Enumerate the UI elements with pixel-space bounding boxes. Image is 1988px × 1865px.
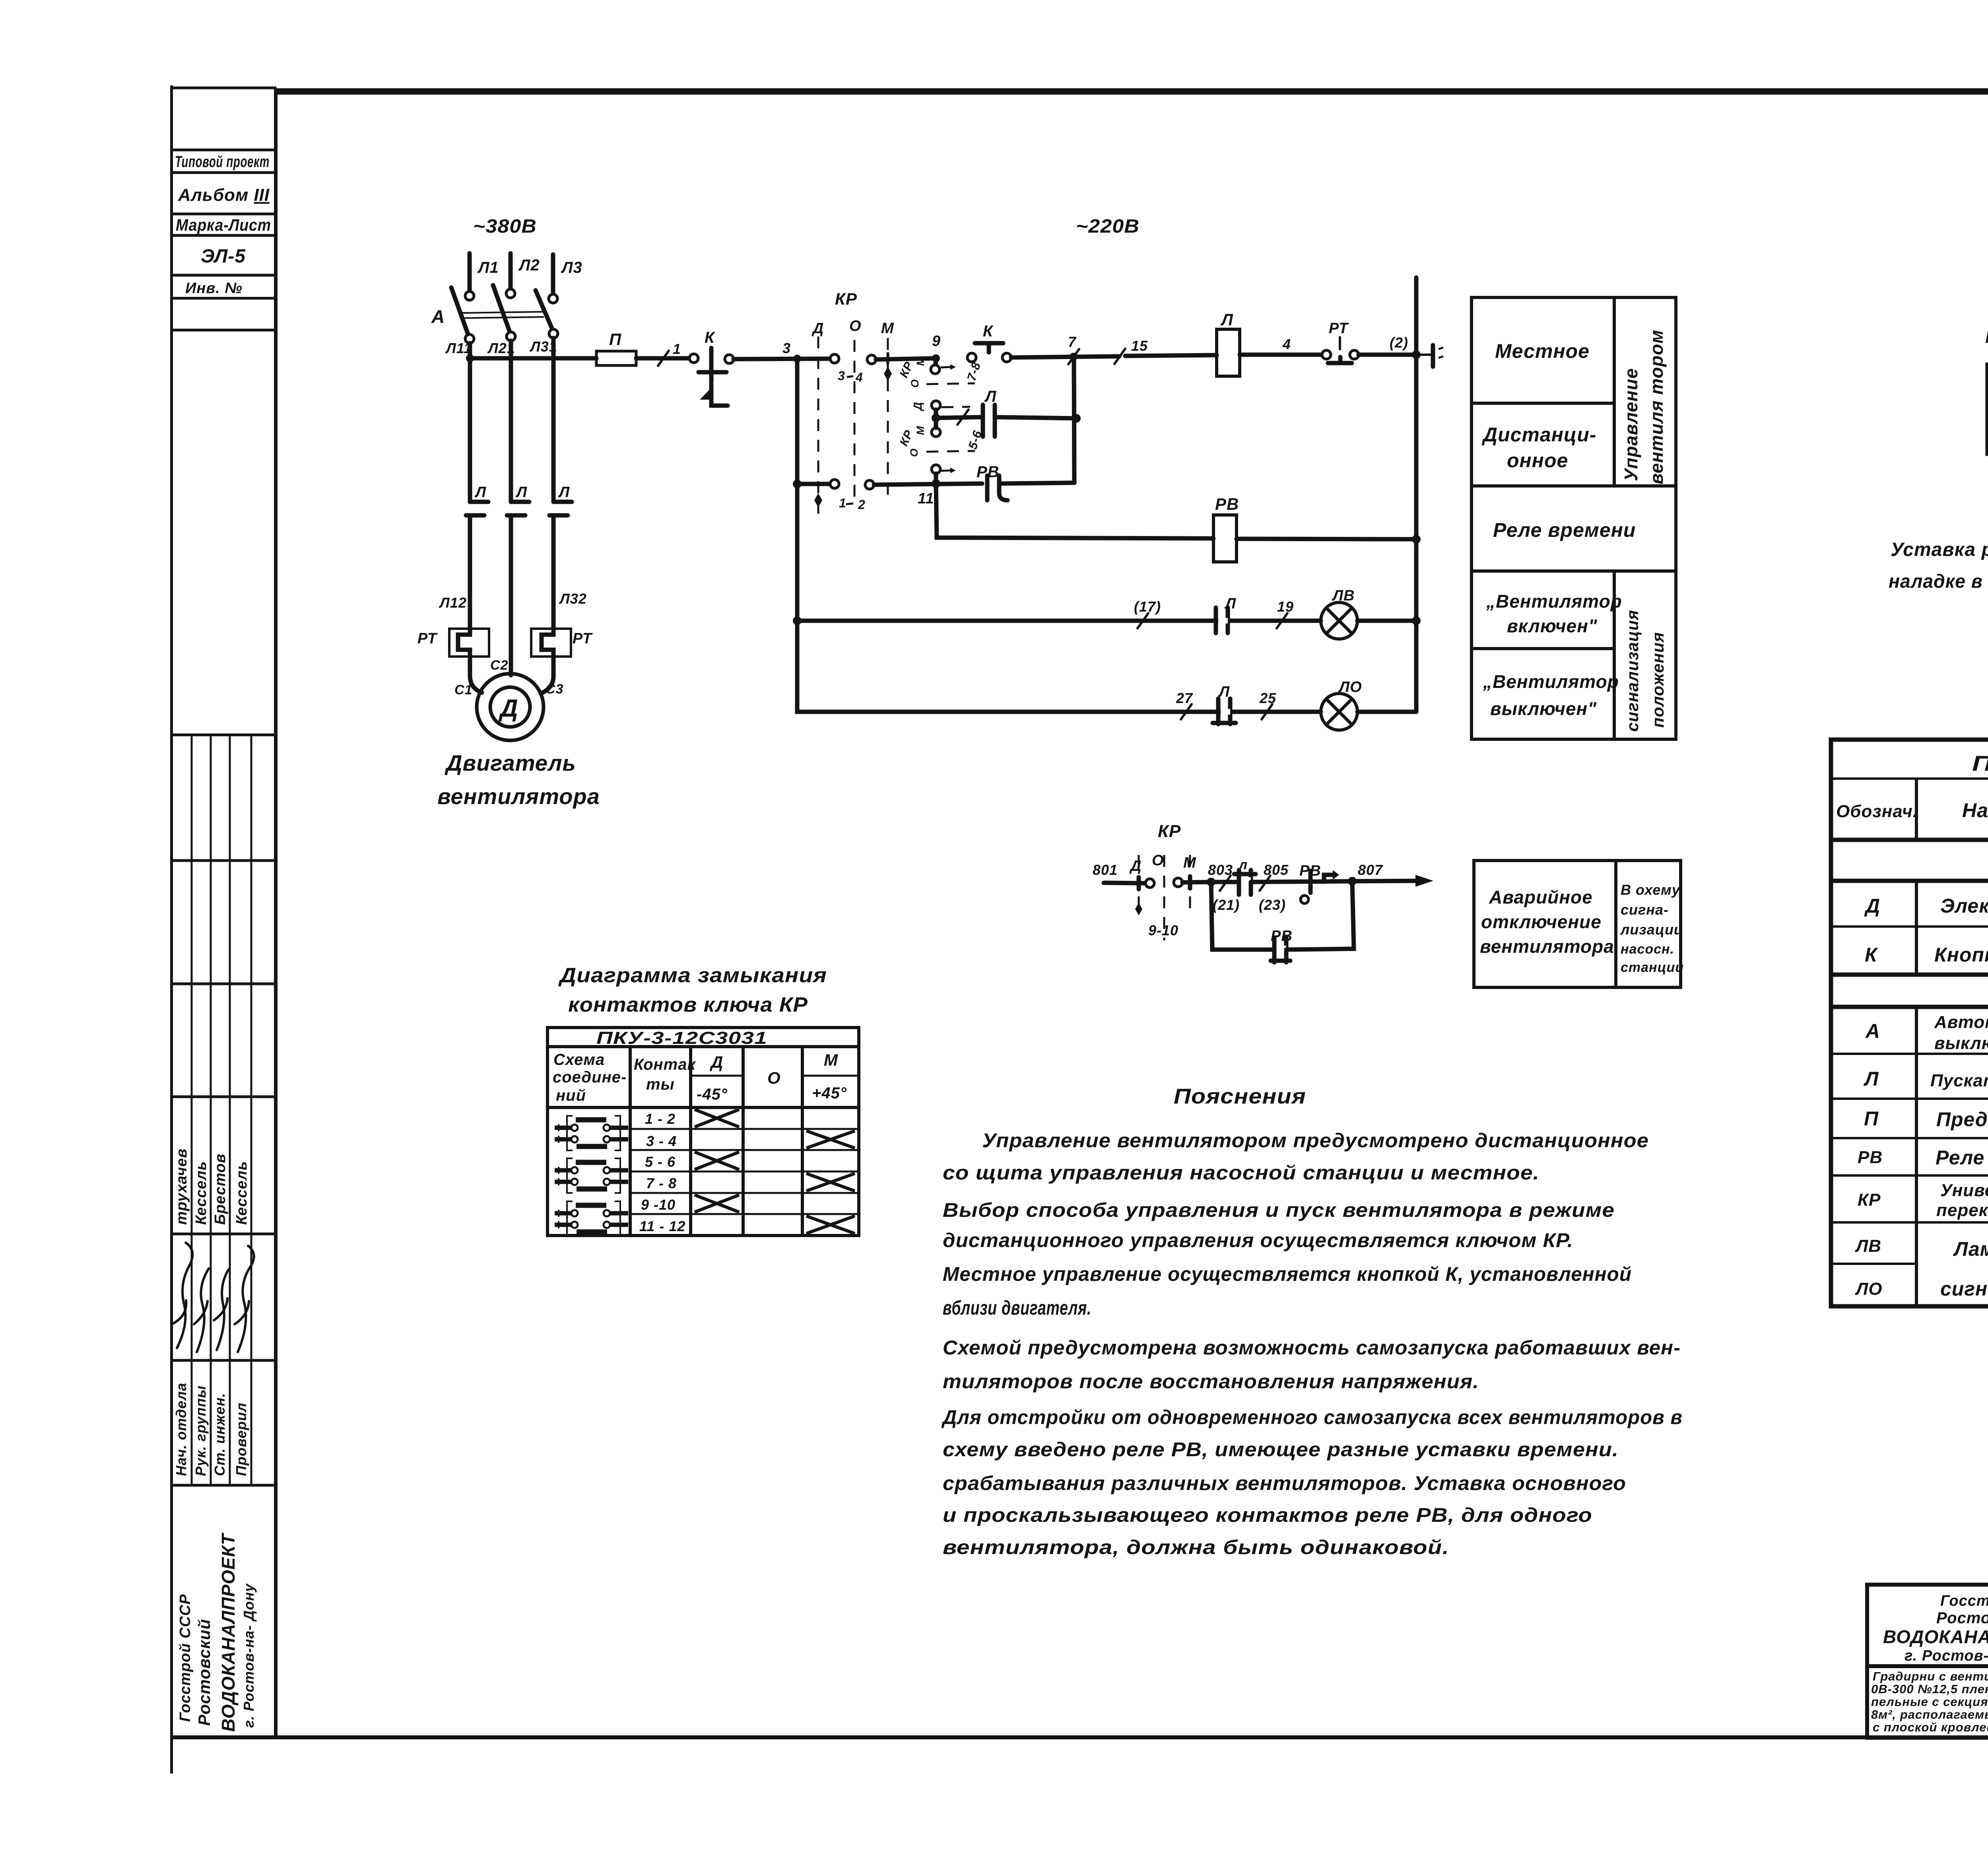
svg-text:К: К bbox=[705, 329, 715, 346]
svg-text:Уставка реле времени „1÷5-РВ": Уставка реле времени „1÷5-РВ" уточняется… bbox=[1891, 539, 1988, 560]
svg-text:П: П bbox=[1864, 1107, 1879, 1130]
svg-text:Дистанци-: Дистанци- bbox=[1481, 424, 1596, 446]
svg-text:Брестов: Брестов bbox=[212, 1154, 229, 1225]
svg-text:Пускатель магнитный: Пускатель магнитный bbox=[1930, 1071, 1988, 1090]
svg-text:3 - 4: 3 - 4 bbox=[646, 1133, 677, 1149]
svg-text:807: 807 bbox=[1358, 862, 1383, 878]
svg-text:(23): (23) bbox=[1259, 897, 1286, 913]
emergency KR contact 9-10 bbox=[1174, 876, 1211, 888]
svg-text:Местное: Местное bbox=[1495, 340, 1590, 362]
svg-text:сигна-: сигна- bbox=[1621, 901, 1669, 918]
svg-text:Контак: Контак bbox=[634, 1056, 696, 1073]
svg-text:Л12: Л12 bbox=[439, 594, 467, 611]
svg-text:пельные с секциями площадью: пельные с секциями площадью bbox=[1871, 1695, 1988, 1709]
svg-text:РТ: РТ bbox=[573, 630, 593, 647]
time settings table title bbox=[1985, 324, 1988, 348]
svg-text:Л: Л bbox=[558, 484, 570, 501]
svg-text:Электродвигатель: Электродвигатель bbox=[1940, 895, 1988, 917]
svg-text:Л3: Л3 bbox=[561, 259, 582, 276]
breaker A bbox=[431, 285, 553, 335]
thermal relay RT contact bbox=[1322, 320, 1359, 363]
svg-text:и проскальзывающего контакт: и проскальзывающего контактов реле РВ, д… bbox=[943, 1504, 1592, 1526]
wire top rail segment 5 bbox=[1125, 355, 1217, 356]
contact diagram header texts bbox=[553, 1028, 847, 1104]
label ~220V bbox=[1076, 216, 1140, 237]
lamp LV bbox=[1321, 587, 1421, 639]
svg-text:Госстрой СССР: Госстрой СССР bbox=[177, 1594, 194, 1722]
svg-text:Л: Л bbox=[984, 388, 997, 405]
strip names (rotated) bbox=[173, 1148, 250, 1225]
svg-text:А: А bbox=[431, 306, 445, 327]
svg-text:Автоматический: Автоматический bbox=[1934, 1012, 1988, 1032]
rail 1-2 bbox=[793, 480, 982, 512]
svg-text:положения: положения bbox=[1648, 632, 1667, 728]
svg-text:л: л bbox=[1238, 857, 1248, 872]
svg-text:11: 11 bbox=[918, 490, 934, 507]
svg-text:Кессель: Кессель bbox=[233, 1161, 250, 1225]
title block org cell bbox=[1871, 1593, 1988, 1734]
svg-text:М: М bbox=[914, 426, 926, 435]
node 807 bbox=[1348, 862, 1383, 886]
svg-text:включен": включен" bbox=[1507, 616, 1598, 636]
svg-text:с плоской кровлей.: с плоской кровлей. bbox=[1873, 1720, 1988, 1734]
wire top rail segment 4 bbox=[1011, 356, 1119, 357]
svg-text:контактов ключа КР: контактов ключа КР bbox=[568, 993, 808, 1016]
svg-text:3: 3 bbox=[782, 340, 791, 356]
svg-text:Ст. инжен.: Ст. инжен. bbox=[212, 1393, 228, 1476]
svg-text:вентиля тором: вентиля тором bbox=[1646, 330, 1667, 484]
svg-text:Выдержки времени реле „1÷5-РВ": Выдержки времени реле „1÷5-РВ" bbox=[1985, 324, 1988, 348]
svg-text:схему введено реле РВ, име: схему введено реле РВ, имеющее разные ус… bbox=[943, 1438, 1619, 1461]
thermal relay RT heater left bbox=[417, 629, 489, 657]
wire top rail segment 3 bbox=[734, 359, 835, 359]
svg-text:7-8: 7-8 bbox=[964, 360, 983, 383]
note text bbox=[1889, 539, 1988, 592]
svg-text:11 - 12: 11 - 12 bbox=[639, 1218, 685, 1234]
frame top border bbox=[172, 88, 1988, 95]
svg-text:О: О bbox=[908, 448, 920, 457]
contactor coil L bbox=[1217, 310, 1240, 376]
svg-text:Лампа: Лампа bbox=[1953, 1238, 1988, 1260]
contact diagram table frame bbox=[547, 1028, 859, 1236]
svg-text:ний: ний bbox=[556, 1087, 586, 1104]
svg-text:онное: онное bbox=[1507, 449, 1568, 472]
label ~380V bbox=[473, 216, 537, 237]
svg-text:Л: Л bbox=[1218, 684, 1230, 700]
svg-text:801: 801 bbox=[1093, 862, 1118, 878]
svg-text:РВ: РВ bbox=[1858, 1148, 1883, 1167]
svg-text:Л2: Л2 bbox=[518, 256, 540, 274]
right bus bbox=[1412, 278, 1421, 712]
fuse P bbox=[596, 330, 636, 365]
svg-text:1 - 2: 1 - 2 bbox=[645, 1111, 676, 1127]
svg-text:+45°: +45° bbox=[812, 1084, 847, 1102]
wire top rail segment 6 bbox=[1240, 336, 1322, 355]
svg-text:Предохранитель: Предохранитель bbox=[1936, 1108, 1988, 1131]
svg-text:Ростовский: Ростовский bbox=[195, 1619, 214, 1726]
svg-text:К: К bbox=[1865, 944, 1878, 966]
equipment list table frame bbox=[1831, 740, 1988, 1306]
node L2 input bbox=[506, 253, 540, 298]
svg-text:О: О bbox=[767, 1068, 781, 1087]
node L32 bbox=[559, 591, 587, 607]
svg-text:15: 15 bbox=[1131, 338, 1148, 354]
node L31 bbox=[529, 329, 558, 355]
node L1 input bbox=[465, 253, 499, 300]
svg-text:РВ: РВ bbox=[1271, 928, 1293, 944]
svg-text:~220В: ~220В bbox=[1076, 216, 1140, 237]
svg-text:1: 1 bbox=[839, 496, 846, 510]
wire top rail segment 2 bbox=[636, 356, 689, 361]
svg-text:„Вентилятор: „Вентилятор bbox=[1483, 671, 1619, 692]
node 15 slash bbox=[1114, 338, 1148, 364]
node L12 bbox=[439, 594, 467, 611]
svg-text:Л: Л bbox=[474, 484, 486, 501]
svg-text:С1: С1 bbox=[454, 682, 472, 697]
svg-text:Д: Д bbox=[1864, 895, 1880, 917]
svg-text:Управление: Управление bbox=[1621, 368, 1641, 481]
svg-text:805: 805 bbox=[1264, 862, 1289, 878]
annotation box control functions bbox=[1472, 297, 1676, 739]
explanations text bbox=[941, 1129, 1683, 1558]
svg-text:Двигатель: Двигатель bbox=[445, 750, 576, 775]
title strip right border bbox=[274, 88, 278, 1738]
svg-text:Л: Л bbox=[1220, 310, 1233, 329]
emergency wire 801 bbox=[1093, 862, 1154, 889]
svg-text:Схема: Схема bbox=[553, 1051, 605, 1068]
svg-text:ты: ты bbox=[646, 1076, 675, 1093]
svg-text:Диаграмма замыкания: Диаграмма замыкания bbox=[558, 964, 827, 987]
svg-text:3: 3 bbox=[838, 369, 845, 383]
svg-text:Альбом III: Альбом III bbox=[178, 185, 270, 205]
svg-text:Ростовский: Ростовский bbox=[1936, 1609, 1988, 1627]
svg-text:Реле времени: Реле времени bbox=[1493, 519, 1636, 541]
svg-text:ВОДОКАНАЛПРОЕКТ: ВОДОКАНАЛПРОЕКТ bbox=[1883, 1626, 1988, 1647]
node 7 vertical bbox=[1074, 357, 1074, 483]
svg-text:Для отстройки от одновременн: Для отстройки от одновременного самозапу… bbox=[941, 1406, 1683, 1428]
svg-text:ПКУ-3-12С3031: ПКУ-3-12С3031 bbox=[596, 1028, 767, 1048]
svg-text:переключатель: переключатель bbox=[1936, 1201, 1988, 1220]
strip signatures (rotated squiggles) bbox=[172, 1243, 254, 1352]
svg-text:7: 7 bbox=[1068, 334, 1077, 350]
svg-text:вентилятора: вентилятора bbox=[1480, 936, 1614, 957]
terminal bar right bbox=[1416, 345, 1443, 367]
title strip cell lines bbox=[171, 150, 276, 1485]
KR contact 7-8 chain from node 9 bbox=[897, 357, 983, 388]
contact diagram pictograms bbox=[555, 1116, 628, 1236]
wire RV coil to right bus bbox=[1237, 535, 1421, 544]
svg-text:Л32: Л32 bbox=[559, 591, 587, 607]
svg-text:КР: КР bbox=[897, 359, 916, 380]
title strip column dividers bbox=[192, 735, 251, 1485]
wire phase2 to motor bbox=[509, 515, 513, 675]
svg-text:Госстрой СССР: Госстрой СССР bbox=[1940, 1593, 1988, 1609]
node 3 bbox=[782, 340, 801, 363]
svg-text:наладке в зависимости от време: наладке в зависимости от времени запуска… bbox=[1889, 571, 1988, 592]
lamp row LO bbox=[797, 621, 1321, 724]
svg-text:„Вентилятор: „Вентилятор bbox=[1486, 591, 1622, 612]
svg-text:19: 19 bbox=[1277, 598, 1294, 615]
svg-text:К: К bbox=[983, 322, 994, 340]
svg-text:выключен": выключен" bbox=[1490, 698, 1597, 719]
svg-text:ЛО: ЛО bbox=[1855, 1279, 1882, 1299]
svg-text:Марка-Лист: Марка-Лист bbox=[176, 216, 271, 234]
KR position line O bbox=[849, 318, 862, 500]
svg-text:27: 27 bbox=[1176, 690, 1193, 706]
svg-text:Рук. группы: Рук. группы bbox=[192, 1385, 209, 1476]
svg-text:Универсальный: Универсальный bbox=[1940, 1181, 1988, 1200]
KR contact 5-6 bbox=[897, 422, 984, 483]
emergency section KR label bbox=[1158, 822, 1181, 841]
thermal relay RT heater right bbox=[531, 629, 593, 657]
svg-text:Местное управление осуществл: Местное управление осуществляется кнопко… bbox=[943, 1263, 1632, 1285]
node L11 bbox=[445, 334, 474, 356]
svg-text:Д: Д bbox=[1129, 858, 1142, 874]
svg-text:М: М bbox=[914, 357, 926, 366]
svg-text:г. Ростов-на- Дону: г. Ростов-на- Дону bbox=[1905, 1647, 1988, 1664]
svg-text:Л: Л bbox=[515, 484, 527, 501]
svg-text:ЛВ: ЛВ bbox=[1332, 587, 1355, 604]
svg-text:отключение: отключение bbox=[1481, 911, 1602, 932]
svg-text:Типовой проект: Типовой проект bbox=[175, 153, 270, 171]
svg-text:Перечень электрооборудования: Перечень электрооборудования bbox=[1972, 752, 1988, 775]
wire phase2 down bbox=[509, 341, 513, 502]
svg-text:-45°: -45° bbox=[697, 1086, 728, 1103]
svg-text:Кессель: Кессель bbox=[193, 1161, 210, 1225]
svg-text:станции: станции bbox=[1621, 960, 1684, 975]
svg-text:сигнализация: сигнализация bbox=[1623, 610, 1642, 732]
svg-text:А: А bbox=[1865, 1020, 1880, 1042]
time relay RV NC contact on rail 1-2 bbox=[977, 463, 1074, 500]
svg-text:1: 1 bbox=[673, 341, 681, 357]
wire from node 11 to RV coil row bbox=[936, 484, 1213, 538]
start button K bbox=[967, 322, 1011, 362]
svg-text:Д: Д bbox=[498, 695, 518, 722]
svg-text:вентилятора, должна быть од: вентилятора, должна быть одинаковой. bbox=[943, 1536, 1449, 1558]
wire phase1 to RT bbox=[468, 515, 472, 629]
stop button K bbox=[689, 329, 734, 406]
svg-text:Л: Л bbox=[1864, 1068, 1879, 1090]
time relay coil RV bbox=[1213, 495, 1239, 562]
svg-text:КР: КР bbox=[1158, 822, 1181, 841]
svg-text:(2): (2) bbox=[1390, 334, 1408, 351]
node 11 bbox=[918, 479, 940, 507]
svg-text:Д: Д bbox=[812, 320, 824, 337]
left bus from node 3 bbox=[795, 359, 800, 712]
slash (21) bbox=[1213, 876, 1240, 913]
svg-text:г. Ростов-на- Дону: г. Ростов-на- Дону bbox=[241, 1583, 257, 1728]
svg-text:лизации: лизации bbox=[1620, 921, 1683, 938]
svg-text:ЛВ: ЛВ bbox=[1855, 1236, 1881, 1256]
svg-text:М: М bbox=[881, 320, 894, 337]
KR position line M bbox=[881, 320, 894, 500]
KR contact 3-4 bbox=[830, 352, 936, 385]
svg-text:Нач. отдела: Нач. отдела bbox=[173, 1383, 189, 1476]
svg-text:насосн.: насосн. bbox=[1621, 942, 1674, 957]
self-hold branch with aux contact L bbox=[932, 388, 1081, 437]
svg-text:7 - 8: 7 - 8 bbox=[646, 1175, 677, 1191]
svg-text:4: 4 bbox=[855, 370, 863, 385]
time settings table bbox=[1987, 364, 1988, 455]
lamp LO bbox=[1321, 679, 1416, 730]
svg-text:ВОДОКАНАЛПРОЕКТ: ВОДОКАНАЛПРОЕКТ bbox=[218, 1533, 239, 1732]
svg-text:~380В: ~380В bbox=[473, 216, 537, 237]
KR contact 7-8 lower terminal bbox=[912, 401, 970, 418]
svg-text:со щита управления насосной: со щита управления насосной станции и ме… bbox=[943, 1162, 1540, 1184]
svg-text:С2: С2 bbox=[490, 658, 508, 673]
wire top rail segment 1 bbox=[466, 354, 596, 362]
svg-text:(21): (21) bbox=[1213, 897, 1240, 913]
wire phase3 to RT bbox=[551, 515, 556, 629]
svg-text:ЛО: ЛО bbox=[1338, 679, 1362, 695]
wire RT right to motor C3 bbox=[541, 657, 553, 694]
svg-text:Кнопка управления: Кнопка управления bbox=[1934, 944, 1988, 966]
svg-text:Наименование: Наименование bbox=[1962, 799, 1988, 822]
KR position line D bbox=[812, 320, 824, 514]
svg-text:Л1: Л1 bbox=[477, 259, 499, 276]
svg-text:КР: КР bbox=[1858, 1190, 1881, 1210]
svg-text:срабатывания различных венти: срабатывания различных вентиляторов. Уст… bbox=[943, 1472, 1626, 1494]
svg-text:сигнальная: сигнальная bbox=[1940, 1278, 1988, 1300]
svg-text:2: 2 bbox=[858, 497, 866, 512]
svg-text:трухачев: трухачев bbox=[173, 1148, 190, 1225]
svg-text:П: П bbox=[609, 330, 621, 349]
svg-text:ЭЛ-5: ЭЛ-5 bbox=[201, 246, 246, 267]
svg-text:С3: С3 bbox=[546, 682, 563, 697]
title block frame bbox=[1867, 1585, 1988, 1738]
frame bottom border bbox=[170, 1735, 1988, 1739]
svg-text:Управление вентилятором пред: Управление вентилятором предусмотрено ди… bbox=[982, 1129, 1649, 1152]
svg-text:Проверил: Проверил bbox=[233, 1403, 249, 1476]
contact diagram title bbox=[558, 964, 827, 1016]
title strip left border bbox=[170, 85, 173, 1774]
svg-text:Градирни с вентиляторами: Градирни с вентиляторами bbox=[1873, 1669, 1988, 1683]
svg-text:Аварийное: Аварийное bbox=[1489, 887, 1593, 907]
svg-text:РТ: РТ bbox=[417, 630, 438, 647]
svg-text:М: М bbox=[824, 1051, 838, 1069]
motor D bbox=[454, 658, 563, 740]
KR label bbox=[835, 289, 857, 308]
svg-text:выключатель: выключатель bbox=[1934, 1034, 1988, 1053]
svg-text:Реле времени: Реле времени bbox=[1936, 1146, 1988, 1169]
svg-text:Д: Д bbox=[710, 1053, 723, 1071]
svg-text:0В-300 №12,5 пленочные и ка-: 0В-300 №12,5 пленочные и ка- bbox=[1871, 1682, 1988, 1696]
contact diagram X marks bbox=[695, 1109, 855, 1234]
svg-text:Схемой предусмотрена возможн: Схемой предусмотрена возможность самозап… bbox=[943, 1337, 1681, 1359]
svg-text:РТ: РТ bbox=[1329, 320, 1349, 337]
svg-text:Выбор способа управления и: Выбор способа управления и пуск вентилят… bbox=[943, 1199, 1615, 1221]
lamp row LV bbox=[793, 595, 1321, 633]
svg-text:соедине-: соедине- bbox=[553, 1068, 627, 1086]
svg-text:РВ: РВ bbox=[1215, 495, 1239, 513]
time relay RV contact (emergency) bbox=[1299, 863, 1352, 903]
wire RT left to motor C1 bbox=[470, 657, 482, 693]
node 803 bbox=[1207, 862, 1233, 886]
svg-text:тиляторов после восстановлен: тиляторов после восстановления напряжени… bbox=[943, 1370, 1479, 1393]
svg-text:Д: Д bbox=[912, 402, 924, 412]
node 9 bbox=[932, 333, 941, 362]
svg-text:О: О bbox=[849, 318, 862, 334]
strip job titles (rotated) bbox=[173, 1383, 249, 1476]
motor caption bbox=[437, 750, 600, 809]
svg-text:Пояснения: Пояснения bbox=[1174, 1084, 1306, 1108]
node L21 bbox=[487, 332, 515, 356]
svg-text:вентилятора: вентилятора bbox=[437, 784, 600, 809]
wire top rail segment 7 bbox=[1359, 334, 1416, 355]
svg-text:Обознач.: Обознач. bbox=[1836, 802, 1918, 821]
svg-text:9-10: 9-10 bbox=[1148, 922, 1178, 938]
svg-text:О: О bbox=[909, 379, 921, 388]
annotation box emergency bbox=[1474, 861, 1681, 987]
node L3 input bbox=[549, 254, 582, 303]
wire phase3 down bbox=[551, 338, 556, 502]
node 7 bbox=[1068, 334, 1079, 364]
svg-text:КР: КР bbox=[835, 289, 857, 308]
wire phase1 down bbox=[468, 343, 472, 502]
strip cell texts bbox=[175, 153, 271, 297]
svg-text:М: М bbox=[1183, 855, 1196, 871]
node 1 slash bbox=[658, 341, 681, 366]
explanations heading bbox=[1174, 1084, 1306, 1108]
contactor L NC contact (emergency) bbox=[1211, 857, 1308, 895]
svg-text:дистанционного управления ос: дистанционного управления осуществляется… bbox=[943, 1229, 1573, 1251]
contact diagram row labels bbox=[639, 1111, 685, 1234]
strip organisation block (rotated) bbox=[177, 1533, 257, 1732]
contactor L main contacts bbox=[466, 484, 572, 515]
emergency output arrow bbox=[1352, 875, 1433, 887]
svg-text:9: 9 bbox=[932, 333, 941, 350]
svg-text:В охему: В охему bbox=[1621, 882, 1681, 898]
svg-text:5 - 6: 5 - 6 bbox=[645, 1154, 676, 1170]
svg-text:О: О bbox=[1152, 852, 1164, 869]
svg-text:4: 4 bbox=[1282, 336, 1291, 352]
svg-text:(17): (17) bbox=[1134, 598, 1161, 615]
svg-text:9 -10: 9 -10 bbox=[641, 1197, 676, 1213]
svg-text:8м², располагаемые на здания: 8м², располагаемые на зданиях bbox=[1871, 1708, 1988, 1721]
svg-text:КР: КР bbox=[897, 428, 916, 448]
slash (23) bbox=[1259, 862, 1289, 913]
svg-text:Л: Л bbox=[1224, 595, 1236, 612]
emergency RV bypass loop bbox=[1211, 881, 1354, 962]
equipment list texts bbox=[1836, 752, 1988, 1305]
svg-text:Инв. №: Инв. № bbox=[185, 280, 243, 297]
svg-text:вблизи двигателя.: вблизи двигателя. bbox=[943, 1297, 1091, 1319]
emergency KR position lines bbox=[1129, 852, 1196, 940]
svg-text:25: 25 bbox=[1259, 690, 1276, 706]
